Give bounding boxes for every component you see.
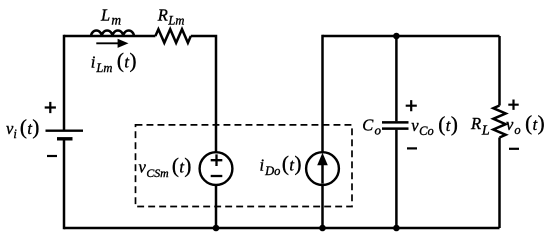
label + above battery <box>45 102 56 113</box>
wire: iDo branch vertical <box>321 35 324 229</box>
- below vCo <box>407 147 417 149</box>
label - below battery <box>47 155 57 157</box>
inductor Lm <box>91 30 134 36</box>
- inside vCSm <box>211 175 223 177</box>
wire: top-left horizontal from battery to inductor/resistor <box>64 35 155 38</box>
+ inside vCSm <box>211 154 223 166</box>
junction node bottom of Co <box>393 225 400 232</box>
resistor RLm (zigzag) <box>155 29 190 43</box>
svg-text:vi(t): vi(t) <box>6 115 39 141</box>
wire: bottom rail <box>64 227 500 230</box>
wire: left vertical (battery branch) <box>63 35 66 229</box>
current source iDo circle <box>306 152 339 185</box>
wire: capacitor branch vertical <box>395 36 398 229</box>
voltage source vCSm circle <box>200 152 233 185</box>
wire: top-left horizontal after resistor to corner <box>191 36 217 153</box>
- below vo <box>509 148 519 150</box>
battery vi short plate <box>57 137 73 140</box>
arrow inside iDo <box>321 163 324 184</box>
+ above vo <box>508 100 518 110</box>
battery vi long plate <box>46 129 84 131</box>
capacitor Co plates <box>382 122 409 128</box>
current arrow iLm <box>96 42 119 44</box>
junction node top of Co <box>393 33 400 40</box>
+ above vCo <box>406 100 417 111</box>
svg-text:vo(t): vo(t) <box>506 111 545 137</box>
junction node bottom of iDo <box>319 225 326 232</box>
junction node bottom of vCSm <box>213 225 220 232</box>
wire: right vertical (RL branch) <box>498 36 501 228</box>
resistor RL (vertical zigzag) <box>493 106 505 138</box>
wire: vCSm bottom to bottom rail <box>215 185 218 230</box>
wire: top-right horizontal <box>323 35 500 38</box>
dashed box <box>136 125 353 207</box>
